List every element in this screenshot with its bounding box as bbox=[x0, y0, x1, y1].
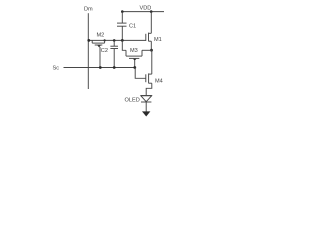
wire C2 bottom plate to Sc line bbox=[113, 49, 115, 68]
wire node B to M4 drain bbox=[151, 50, 153, 74]
transistor M3 bbox=[126, 48, 142, 61]
svg-text:C2: C2 bbox=[101, 48, 108, 54]
wire nodeA branch down to M3 left arm bbox=[122, 40, 126, 50]
wire OLED cathode to ground bbox=[145, 102, 147, 112]
junction dot VDD-C1 bbox=[121, 10, 124, 13]
svg-text:M3: M3 bbox=[130, 48, 138, 54]
junction dot C2 top bbox=[113, 39, 116, 42]
junction dot Dm-nodeA bbox=[87, 39, 90, 42]
transistor M4 bbox=[146, 73, 163, 84]
wire Sc scan line bbox=[64, 67, 135, 69]
wire node A to C2 top plate bbox=[113, 40, 115, 46]
wire node A horizontal (Dm tap to M1 gate) bbox=[88, 39, 146, 41]
wire M3 gate to Sc line bbox=[134, 60, 136, 67]
ground bbox=[142, 111, 150, 116]
transistor M1 bbox=[146, 33, 162, 43]
wire M2 gate to Sc line bbox=[99, 47, 101, 68]
svg-text:M2: M2 bbox=[97, 32, 105, 38]
capacitor C1 bbox=[117, 22, 127, 24]
wire VDD to C1 top plate bbox=[121, 12, 123, 24]
svg-text:Sc: Sc bbox=[53, 66, 60, 72]
wire M4 source to OLED anode bbox=[146, 83, 152, 95]
junction dot C1-M3 branch bbox=[121, 39, 124, 42]
wire C1 bottom plate to node A bbox=[121, 26, 123, 40]
diode OLED bbox=[125, 96, 152, 104]
svg-text:M4: M4 bbox=[155, 78, 163, 84]
wire VDD to M1 drain bbox=[150, 12, 152, 34]
wire M1 source to node B bbox=[150, 41, 152, 50]
junction dot Sc-M3gate bbox=[133, 66, 136, 69]
svg-text:C1: C1 bbox=[129, 23, 136, 29]
wire Sc to M4 gate bbox=[135, 68, 146, 79]
wire M3 right arm to node B bbox=[142, 49, 152, 51]
wire VDD rail bbox=[122, 11, 165, 13]
junction dot Sc-M2gate bbox=[99, 66, 102, 69]
junction dot VDD-M1 bbox=[150, 10, 153, 13]
wire Dm data line vertical bbox=[87, 13, 89, 89]
capacitor C2 bbox=[101, 46, 118, 54]
junction dot M2 right arm bbox=[104, 39, 106, 41]
svg-text:Dm: Dm bbox=[84, 7, 93, 13]
svg-text:OLED: OLED bbox=[125, 98, 140, 104]
svg-text:VDD: VDD bbox=[140, 6, 152, 12]
junction dot Sc-C2 bbox=[113, 66, 116, 69]
svg-text:M1: M1 bbox=[154, 37, 162, 43]
transistor M2 bbox=[92, 32, 104, 47]
junction dot node B bbox=[150, 49, 153, 52]
